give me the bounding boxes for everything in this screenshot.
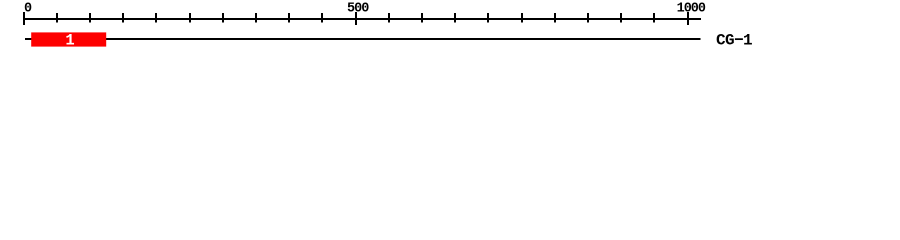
ruler minor tick 550 (388, 13, 390, 23)
ruler minor tick 200 (155, 13, 157, 23)
ruler axis line (23, 18, 701, 20)
ruler minor tick 450 (321, 13, 323, 23)
ruler minor tick 250 (189, 13, 191, 23)
protein backbone line (25, 38, 701, 40)
ruler minor tick 50 (56, 13, 58, 23)
ruler minor tick 800 (554, 13, 556, 23)
svg-text:500: 500 (347, 2, 369, 17)
ruler minor tick 350 (255, 13, 257, 23)
ruler minor tick 750 (521, 13, 523, 23)
ruler minor tick 100 (89, 13, 91, 23)
svg-text:1: 1 (65, 32, 74, 50)
domain box 1 (CG-1 domain) (31, 32, 106, 46)
ruler minor tick 900 (620, 13, 622, 23)
ruler minor tick 650 (454, 13, 456, 23)
background (0, 0, 900, 58)
svg-text:CG−1: CG−1 (716, 32, 752, 50)
svg-text:1000: 1000 (677, 2, 706, 17)
ruler minor tick 300 (222, 13, 224, 23)
ruler minor tick 850 (587, 13, 589, 23)
ruler major tick 0 (23, 12, 25, 25)
svg-text:0: 0 (24, 2, 32, 17)
ruler minor tick 600 (421, 13, 423, 23)
ruler minor tick 950 (653, 13, 655, 23)
ruler minor tick 400 (288, 13, 290, 23)
ruler major tick 500 (355, 12, 357, 25)
ruler minor tick 700 (487, 13, 489, 23)
ruler minor tick 150 (122, 13, 124, 23)
ruler major tick 1000 (687, 12, 689, 25)
